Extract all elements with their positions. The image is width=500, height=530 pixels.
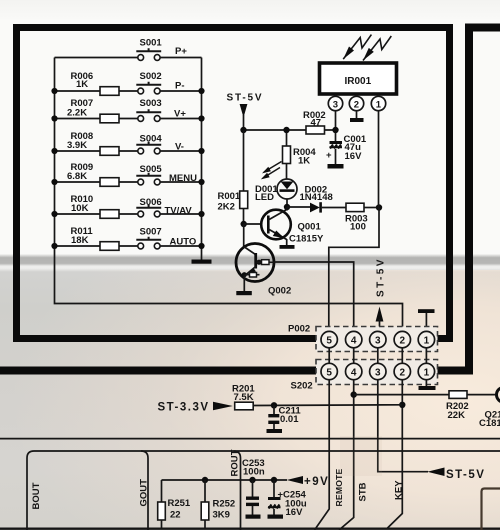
switch S007 bbox=[136, 237, 161, 249]
ST-5V arrow into P002 pin3 bbox=[376, 307, 384, 322]
svg-text:0.01: 0.01 bbox=[280, 414, 299, 425]
capacitor C211 bbox=[273, 405, 275, 414]
svg-text:3: 3 bbox=[333, 99, 338, 110]
capacitor C253 bbox=[252, 480, 254, 497]
ground C253 bbox=[246, 515, 261, 519]
svg-text:ST-5V: ST-5V bbox=[376, 257, 387, 297]
svg-text:S007: S007 bbox=[140, 227, 162, 238]
svg-text:5: 5 bbox=[326, 335, 333, 346]
wire S202 pin4 STB line bbox=[339, 380, 354, 530]
IR001 pin 3 bbox=[328, 95, 342, 111]
svg-text:C181: C181 bbox=[479, 418, 500, 429]
svg-text:4: 4 bbox=[351, 335, 358, 346]
resistor R002 bbox=[306, 126, 325, 134]
right board frame (top-right box + full-width bottom bus bar) bbox=[0, 28, 500, 371]
IR light bolt 1 bbox=[343, 35, 371, 60]
svg-text:V+: V+ bbox=[174, 109, 186, 120]
svg-text:100: 100 bbox=[350, 222, 366, 233]
wire D002 to R003 bbox=[322, 207, 346, 209]
resistor R007 bbox=[100, 114, 119, 123]
svg-text:STB: STB bbox=[358, 482, 369, 501]
svg-text:1: 1 bbox=[424, 367, 431, 378]
switch S003 bbox=[136, 109, 161, 121]
svg-text:2.2K: 2.2K bbox=[67, 108, 87, 119]
switch S001 bbox=[136, 48, 161, 60]
transistor Q21x (edge) bbox=[497, 387, 500, 402]
resistor R006 bbox=[100, 87, 119, 96]
switch S006 bbox=[136, 205, 161, 217]
ground C211 bbox=[267, 429, 283, 433]
svg-text:16V: 16V bbox=[345, 151, 363, 162]
capacitor C001 bbox=[326, 133, 367, 164]
svg-text:1: 1 bbox=[376, 99, 382, 110]
wire STB node to R202 bbox=[354, 394, 449, 396]
ST-5V arrow bottom bbox=[427, 468, 444, 477]
ground C001 bbox=[328, 164, 344, 169]
wire S202 pin3 to ST-5V arrow bbox=[378, 380, 428, 472]
svg-text:100n: 100n bbox=[243, 467, 265, 478]
GOUT branch bbox=[141, 451, 148, 530]
IR001 pin 1 bbox=[371, 95, 385, 111]
svg-text:3K9: 3K9 bbox=[213, 510, 230, 521]
wire S202 pin5 REMOTE line bbox=[315, 380, 330, 530]
ROUT branch bbox=[234, 451, 241, 530]
wire Q002 collector to P002 pin4 bbox=[274, 262, 354, 332]
resistor R004 bbox=[286, 133, 288, 146]
svg-text:TV/AV: TV/AV bbox=[165, 206, 193, 217]
keypad right column wire bbox=[201, 58, 203, 260]
svg-text:S002: S002 bbox=[140, 71, 162, 82]
junction dots right column bbox=[198, 88, 204, 249]
node C253 bbox=[249, 477, 255, 483]
svg-text:P+: P+ bbox=[175, 46, 187, 57]
svg-text:IR001: IR001 bbox=[345, 76, 372, 87]
wire row S005 bbox=[55, 181, 202, 183]
svg-text:2: 2 bbox=[400, 335, 407, 346]
junction dots left column bbox=[51, 88, 57, 249]
IR001 pin 2 bbox=[349, 95, 363, 118]
wire S202 pin2 KEY line bbox=[387, 380, 402, 529]
ground Q002 bbox=[236, 291, 252, 295]
switch symbols S001-S007 bbox=[136, 48, 161, 249]
svg-text:KEY: KEY bbox=[394, 480, 405, 500]
svg-text:4: 4 bbox=[351, 367, 358, 378]
LED D001 bbox=[255, 162, 297, 205]
wire +9V rail bbox=[162, 479, 288, 481]
ST-5V top source arrow bbox=[240, 104, 248, 118]
svg-text:47: 47 bbox=[311, 118, 322, 129]
svg-text:1K: 1K bbox=[76, 79, 88, 90]
ground IR001 pin 2 bbox=[350, 118, 364, 122]
wire row S003 bbox=[55, 118, 202, 120]
ground keypad right column bbox=[192, 260, 212, 264]
warm scan tint lower right bbox=[0, 270, 500, 530]
svg-text:5: 5 bbox=[326, 367, 333, 378]
stub P002 pin1 top bar bbox=[425, 313, 427, 331]
ground S202 pin1 bbox=[425, 380, 427, 386]
node C211 bbox=[271, 402, 277, 408]
svg-text:MENU: MENU bbox=[169, 173, 197, 184]
svg-text:2K2: 2K2 bbox=[218, 202, 235, 213]
svg-text:1N4148: 1N4148 bbox=[300, 192, 333, 203]
wire IR001 pin1 down to REMOTE jog bbox=[329, 111, 379, 332]
node R252 bbox=[202, 477, 208, 483]
resistor R011 bbox=[100, 242, 119, 251]
wire row S002 bbox=[55, 90, 202, 92]
svg-text:LED: LED bbox=[255, 192, 274, 203]
svg-text:S005: S005 bbox=[140, 164, 163, 175]
svg-text:S006: S006 bbox=[140, 197, 162, 208]
switch S004 bbox=[136, 142, 161, 154]
svg-text:7.5K: 7.5K bbox=[234, 392, 254, 403]
svg-text:P002: P002 bbox=[288, 324, 310, 335]
resistor R009 bbox=[100, 178, 119, 187]
svg-text:Q001: Q001 bbox=[298, 222, 322, 233]
svg-text:3: 3 bbox=[375, 335, 382, 346]
ST-3.3V arrow bbox=[213, 402, 233, 410]
node D001/D002/Q001 bbox=[284, 204, 290, 210]
resistor R001 bbox=[243, 130, 245, 191]
wire R201 to KEY node bbox=[253, 404, 402, 407]
svg-text:2: 2 bbox=[400, 367, 407, 378]
svg-text:AUTO: AUTO bbox=[170, 237, 197, 248]
capacitor C254 bbox=[273, 480, 275, 497]
resistor R008 bbox=[100, 147, 119, 156]
sub-board corner bottom right bbox=[482, 489, 500, 530]
svg-text:22K: 22K bbox=[448, 410, 466, 421]
ground C254 bbox=[268, 515, 284, 519]
svg-text:R252: R252 bbox=[213, 499, 236, 510]
+9V arrow bbox=[287, 476, 303, 484]
svg-text:S001: S001 bbox=[140, 38, 163, 49]
resistor R251 bbox=[161, 480, 163, 502]
wire row S001 bbox=[55, 57, 202, 59]
svg-text:S004: S004 bbox=[140, 134, 163, 145]
svg-text:2: 2 bbox=[354, 99, 359, 110]
svg-text:R001: R001 bbox=[218, 191, 241, 202]
interconnect stubs P002-S202 bbox=[329, 348, 426, 364]
svg-text:P-: P- bbox=[175, 81, 185, 92]
resistor R201 bbox=[235, 402, 254, 410]
P002 pins 5..1 bbox=[321, 331, 435, 347]
connector S202 bbox=[291, 360, 438, 392]
transistor Q001 C1815Y bbox=[244, 207, 324, 245]
svg-text:22: 22 bbox=[170, 510, 181, 521]
keypad left column wire bbox=[55, 58, 403, 333]
svg-text:ROUT: ROUT bbox=[230, 449, 241, 476]
node C254 bbox=[271, 477, 277, 483]
node R003/pin1 bbox=[376, 204, 382, 210]
svg-text:3.9K: 3.9K bbox=[67, 140, 87, 151]
long wire L1 bbox=[0, 438, 500, 440]
svg-text:16V: 16V bbox=[286, 507, 304, 518]
svg-text:6.8K: 6.8K bbox=[67, 171, 87, 182]
main keypad board box bbox=[17, 28, 450, 339]
light arrows bbox=[263, 162, 282, 179]
svg-text:V-: V- bbox=[175, 142, 184, 153]
resistor R202 bbox=[449, 391, 467, 399]
svg-text:ST-5V: ST-5V bbox=[446, 469, 485, 481]
wire R002 to pin3 node bbox=[325, 111, 336, 130]
wire row S006 bbox=[55, 213, 202, 215]
connector P002 bbox=[288, 324, 438, 352]
switch S002 bbox=[136, 82, 161, 94]
svg-text:1K: 1K bbox=[298, 156, 310, 167]
transistor Q002 (digital) bbox=[236, 224, 291, 297]
svg-text:1: 1 bbox=[424, 335, 431, 346]
svg-text:18K: 18K bbox=[71, 235, 89, 246]
svg-text:GOUT: GOUT bbox=[139, 479, 150, 507]
S202 pins 5..1 bbox=[321, 363, 435, 379]
svg-text:S003: S003 bbox=[140, 98, 162, 109]
svg-text:C1815Y: C1815Y bbox=[289, 234, 324, 245]
svg-text:+: + bbox=[326, 150, 332, 161]
node ST5V/R002 bbox=[240, 127, 246, 133]
svg-text:BOUT: BOUT bbox=[31, 482, 42, 509]
svg-text:ST-5V: ST-5V bbox=[227, 93, 264, 104]
node Q001 base bbox=[241, 221, 247, 227]
node KEY/ST3.3V bbox=[399, 402, 405, 408]
svg-text:R251: R251 bbox=[168, 498, 191, 509]
resistor R010 bbox=[100, 210, 119, 219]
svg-text:+9V: +9V bbox=[304, 476, 329, 488]
row wires bbox=[55, 58, 202, 247]
wire node to D002 bbox=[287, 206, 310, 208]
wire R003 to IR pin1 line bbox=[364, 207, 379, 209]
bottom board edge line bbox=[0, 528, 500, 530]
wire R202 to Q21x bbox=[467, 394, 497, 396]
switch S005 bbox=[136, 173, 161, 185]
bus wire L2 with BOUT branch bbox=[27, 451, 500, 530]
node C001 bbox=[332, 127, 338, 133]
resistor R003 bbox=[346, 203, 364, 211]
wire ST-5V rail bbox=[244, 129, 307, 131]
resistor R252 bbox=[204, 480, 206, 502]
ground Q001 emitter bbox=[280, 245, 295, 249]
node R004 tap bbox=[283, 127, 289, 133]
wire row S004 bbox=[55, 150, 202, 152]
IR receiver IR001 bbox=[320, 63, 397, 94]
svg-text:Q002: Q002 bbox=[268, 286, 291, 297]
node STB/R202 bbox=[351, 391, 357, 397]
svg-text:10K: 10K bbox=[71, 203, 89, 214]
IR light bolt 2 bbox=[363, 36, 391, 61]
scan smudge bbox=[340, 436, 382, 476]
svg-text:S202: S202 bbox=[291, 381, 313, 392]
svg-text:3: 3 bbox=[375, 367, 382, 378]
diode D002 1N4148 bbox=[310, 203, 320, 213]
wire row S007 bbox=[55, 245, 202, 247]
svg-text:ST-3.3V: ST-3.3V bbox=[158, 402, 210, 414]
